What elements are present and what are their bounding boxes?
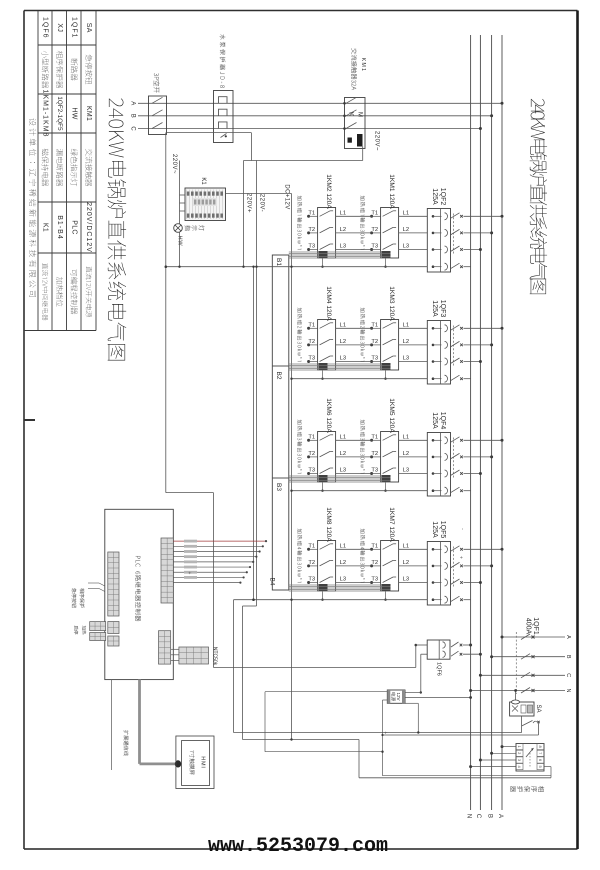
svg-text:T1: T1	[308, 210, 315, 216]
svg-text:M: M	[357, 112, 363, 117]
svg-text:T1: T1	[308, 322, 315, 328]
svg-text:T2: T2	[371, 227, 378, 233]
svg-text:XJ: XJ	[56, 23, 63, 32]
svg-text:T2: T2	[308, 227, 315, 233]
svg-text:C: C	[475, 814, 481, 819]
svg-text:L3: L3	[340, 577, 346, 583]
svg-text:T3: T3	[371, 356, 378, 362]
svg-text:1QF4: 1QF4	[439, 412, 446, 430]
svg-text:1QF2-1QF5: 1QF2-1QF5	[56, 96, 63, 131]
svg-text:125A: 125A	[431, 300, 438, 317]
svg-text:6: 6	[538, 759, 543, 762]
svg-text:L1: L1	[403, 322, 409, 328]
svg-text:8: 8	[538, 745, 543, 748]
svg-text:PLC: PLC	[71, 220, 78, 235]
svg-text:T3: T3	[308, 244, 315, 250]
svg-text:T2: T2	[308, 339, 315, 345]
svg-text:T1: T1	[371, 322, 378, 328]
svg-text:T1: T1	[371, 210, 378, 216]
svg-text:L3: L3	[403, 356, 409, 362]
svg-text:1QF1: 1QF1	[71, 17, 78, 39]
svg-text:L1: L1	[340, 434, 346, 440]
svg-text:T2: T2	[371, 339, 378, 345]
svg-text:L1: L1	[340, 210, 346, 216]
svg-text:C: C	[130, 126, 136, 131]
svg-text:C: C	[565, 673, 571, 677]
svg-text:T1: T1	[371, 543, 378, 549]
svg-text:B3: B3	[275, 483, 282, 491]
svg-text:125A: 125A	[431, 188, 438, 205]
svg-text:220V/DC12V: 220V/DC12V	[85, 202, 92, 253]
svg-text:1QF6: 1QF6	[436, 662, 442, 676]
svg-text:220V+: 220V+	[246, 193, 252, 213]
svg-text:1KM5 120A: 1KM5 120A	[388, 398, 395, 433]
svg-text:L1: L1	[403, 543, 409, 549]
svg-text:A: A	[130, 101, 136, 105]
svg-text:B4: B4	[269, 578, 276, 586]
svg-text:12V: 12V	[396, 692, 401, 700]
svg-text:L3: L3	[403, 244, 409, 250]
svg-text:N: N	[565, 689, 571, 693]
svg-text:L1: L1	[340, 543, 346, 549]
svg-text:B1: B1	[275, 258, 282, 266]
svg-text:B2: B2	[275, 372, 282, 380]
svg-text:L2: L2	[403, 339, 409, 345]
svg-text:220V~: 220V~	[171, 154, 177, 174]
svg-text:2: 2	[517, 752, 522, 755]
svg-text:L2: L2	[403, 451, 409, 457]
svg-text:T1: T1	[308, 543, 315, 549]
svg-text:1QF3: 1QF3	[439, 300, 446, 318]
svg-text:1KM8 120A: 1KM8 120A	[325, 507, 332, 542]
svg-text:L3: L3	[340, 468, 346, 474]
svg-text:T1: T1	[371, 434, 378, 440]
svg-text:T3: T3	[308, 577, 315, 583]
svg-text:L3: L3	[340, 356, 346, 362]
svg-text:T3: T3	[308, 468, 315, 474]
svg-text:L2: L2	[403, 227, 409, 233]
svg-text:L3: L3	[403, 468, 409, 474]
svg-text:+: +	[458, 556, 464, 559]
svg-text:1QF6: 1QF6	[42, 17, 49, 39]
svg-text:T2: T2	[308, 560, 315, 566]
svg-text:+: +	[186, 572, 192, 575]
svg-text:1KM1-1KM8: 1KM1-1KM8	[42, 90, 49, 138]
svg-text:L2: L2	[340, 227, 346, 233]
svg-text:HW: HW	[71, 107, 78, 119]
svg-text:-: -	[459, 528, 465, 530]
svg-text:1KM7 120A: 1KM7 120A	[388, 507, 395, 542]
svg-text:L3: L3	[340, 244, 346, 250]
svg-text:L3: L3	[403, 577, 409, 583]
svg-text:400A: 400A	[525, 618, 532, 635]
svg-text:4: 4	[517, 765, 522, 768]
svg-text:1QF1: 1QF1	[532, 617, 539, 635]
svg-text:125A: 125A	[431, 521, 438, 538]
svg-text:T3: T3	[371, 577, 378, 583]
svg-text:1: 1	[517, 745, 522, 748]
svg-text:125A: 125A	[431, 412, 438, 429]
svg-text:K: K	[348, 112, 354, 116]
svg-text:1KM3 120A: 1KM3 120A	[388, 286, 395, 321]
svg-text:L2: L2	[340, 560, 346, 566]
svg-text:T1: T1	[308, 434, 315, 440]
svg-text:7: 7	[538, 752, 543, 755]
svg-text:3: 3	[517, 759, 522, 762]
svg-text:1KM6 120A: 1KM6 120A	[325, 398, 332, 433]
svg-text:1QF2: 1QF2	[439, 188, 446, 206]
svg-text:KM1: KM1	[360, 58, 366, 73]
svg-text:T2: T2	[371, 451, 378, 457]
svg-text:L2: L2	[403, 560, 409, 566]
svg-text:L1: L1	[403, 210, 409, 216]
svg-text:KM1: KM1	[85, 106, 92, 121]
svg-text:T2: T2	[371, 560, 378, 566]
svg-text:B: B	[130, 114, 136, 118]
svg-text:B: B	[486, 814, 492, 818]
svg-text:220V~: 220V~	[374, 131, 380, 151]
svg-text:K1: K1	[200, 177, 206, 185]
svg-text:A: A	[497, 814, 503, 818]
svg-text:T3: T3	[371, 244, 378, 250]
svg-text:L1: L1	[340, 322, 346, 328]
svg-text:T3: T3	[308, 356, 315, 362]
svg-text:T2: T2	[308, 451, 315, 457]
svg-text:K1: K1	[42, 223, 49, 232]
svg-text:B: B	[565, 655, 571, 659]
svg-text:T3: T3	[371, 468, 378, 474]
svg-text:DC+12V: DC+12V	[284, 184, 290, 209]
svg-text:1KM1 120A: 1KM1 120A	[388, 174, 395, 209]
svg-text:SA: SA	[85, 23, 92, 33]
svg-text:HMI: HMI	[200, 756, 206, 768]
svg-text:A: A	[565, 635, 571, 639]
svg-text:NTC50k: NTC50k	[212, 647, 218, 666]
svg-text:5: 5	[538, 765, 543, 768]
svg-text:L1: L1	[403, 434, 409, 440]
svg-text:+: +	[382, 731, 388, 734]
svg-text:1KM2 120A: 1KM2 120A	[325, 174, 332, 209]
svg-text:L2: L2	[340, 339, 346, 345]
svg-text:1QF5: 1QF5	[439, 521, 446, 539]
svg-text:L2: L2	[340, 451, 346, 457]
svg-text:B1-B4: B1-B4	[56, 215, 63, 239]
svg-text:SA: SA	[535, 704, 541, 712]
svg-text:1KM4 120A: 1KM4 120A	[325, 286, 332, 321]
svg-text:220V-: 220V-	[259, 194, 265, 212]
svg-text:N: N	[465, 814, 471, 818]
